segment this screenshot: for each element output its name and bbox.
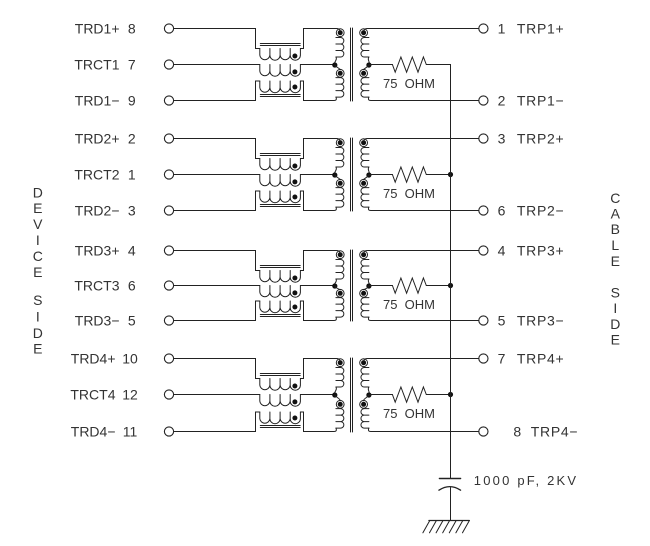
wire T3 secondary bottom to pin 5 TRP3-: [368, 317, 478, 320]
pin circle TRCT2 (left): [164, 170, 173, 179]
svg-text:10: 10: [122, 351, 138, 367]
svg-text:9: 9: [128, 93, 136, 109]
polarity dot choke L1 top winding: [292, 54, 297, 59]
svg-text:E: E: [611, 253, 620, 269]
pin circle TRCT4 (left): [164, 390, 173, 399]
svg-text:B: B: [611, 221, 620, 237]
wire choke L2 bottom out to transformer T2 primary bottom: [300, 191, 336, 211]
svg-text:1: 1: [128, 167, 136, 183]
transformer T2 secondary first loop (around dot): [360, 139, 368, 147]
polarity dot T1 secondary top: [361, 30, 366, 35]
transformer T4 secondary lower first loop (around dot): [360, 400, 368, 408]
T1 primary center tap to lower half: [335, 65, 340, 70]
T4 secondary center tap to lower half: [364, 395, 369, 401]
svg-text:7: 7: [128, 57, 136, 73]
wire T4 secondary bottom to pin 8 TRP4-: [368, 428, 478, 431]
wire T3 secondary top to pin 4 TRP3+: [364, 251, 479, 253]
polarity dot choke L3 top winding: [292, 276, 297, 281]
svg-text:TRP3−: TRP3−: [517, 313, 564, 329]
chassis ground hatching: [423, 521, 470, 533]
polarity dot T3 primary top: [338, 252, 343, 257]
wire choke L3 bottom out to transformer T3 primary bottom: [300, 301, 336, 321]
choke L3 core bars (top): [260, 266, 300, 268]
choke L3 top winding loops: [260, 271, 301, 283]
svg-text:TRP4+: TRP4+: [517, 351, 564, 367]
wire choke L2 top out to transformer T2 primary top: [300, 139, 340, 159]
svg-text:3: 3: [128, 203, 136, 219]
net label CABLE SIDE (vertical, right): [610, 190, 620, 347]
polarity dot T1 primary lower: [338, 71, 343, 76]
pin circle 3 TRP2+ (right): [479, 134, 488, 143]
wire TRCT3 into choke L3 middle winding: [174, 285, 260, 287]
svg-text:D: D: [610, 316, 620, 332]
wire choke L1 bottom out to transformer T1 primary bottom: [300, 81, 336, 101]
center-tap dot T1 secondary: [366, 62, 371, 67]
polarity dot choke L3 bottom winding: [292, 305, 297, 310]
svg-text:4: 4: [128, 243, 136, 259]
svg-text:TRCT3: TRCT3: [74, 278, 119, 294]
svg-text:75 OHM: 75 OHM: [383, 297, 435, 312]
svg-text:TRD4+: TRD4+: [71, 351, 116, 367]
T1 secondary upper half to center tap: [368, 57, 369, 65]
wire TRD3+ into choke L3 top winding: [174, 251, 260, 271]
transformer T1 primary lower first loop (around dot): [336, 69, 344, 77]
transformer T3 secondary first loop (around dot): [360, 251, 368, 259]
T2 primary center tap to lower half: [335, 175, 340, 180]
choke L4 core bars (top): [260, 374, 300, 376]
wire TRD2- into choke L2 bottom winding: [174, 191, 260, 211]
transformer T2 primary lower first loop (around dot): [336, 179, 344, 187]
T3 secondary center tap to lower half: [364, 286, 369, 290]
transformer T1 secondary upper loops: [361, 38, 369, 58]
pin circle TRD3- (left): [164, 316, 173, 325]
wire T4 center tap to resistor R4: [369, 394, 393, 397]
wire choke L4 bottom out to transformer T4 primary bottom: [300, 412, 336, 432]
svg-text:TRCT1: TRCT1: [74, 57, 119, 73]
pin circle TRD2+ (left, row 138.5): [164, 134, 173, 143]
T4 primary upper half to center tap: [334, 387, 336, 395]
svg-text:E: E: [33, 341, 42, 357]
polarity dot choke L1 bottom winding: [292, 85, 297, 90]
transformer T3 secondary lower loops: [361, 298, 369, 318]
svg-text:TRD3+: TRD3+: [75, 243, 120, 259]
wire T1 center tap to resistor R1: [369, 64, 393, 67]
T3 secondary upper half to center tap: [368, 279, 369, 286]
choke L1 core bars (bottom): [260, 95, 300, 97]
wire T1 secondary top to pin 1 TRP1+: [364, 29, 479, 31]
resistor R3 75 OHM zigzag: [392, 278, 426, 293]
svg-text:I: I: [613, 300, 617, 316]
svg-text:8: 8: [513, 424, 521, 440]
transformer T1 core: [351, 28, 353, 101]
svg-text:6: 6: [128, 278, 136, 294]
wire TRD4- into choke L4 bottom winding: [174, 412, 260, 432]
transformer T4 primary first loop (around dot): [336, 359, 344, 367]
polarity dot choke L2 top winding: [292, 164, 297, 169]
wire TRD1+ into choke L1 top winding: [174, 29, 260, 49]
choke L4 top winding loops: [260, 379, 301, 391]
transformer T4 secondary upper loops: [361, 368, 369, 388]
wire TRCT4 into choke L4 middle winding: [174, 394, 260, 396]
transformer T1 secondary lower loops: [361, 78, 369, 98]
transformer T4 primary lower first loop (around dot): [336, 400, 344, 408]
polarity dot T4 secondary lower: [361, 402, 366, 407]
svg-text:11: 11: [123, 424, 138, 440]
svg-text:TRP2−: TRP2−: [517, 203, 564, 219]
pin circle 1 TRP1+ (right): [479, 24, 488, 33]
pin circle TRD1+ (left, row 28.5): [164, 24, 173, 33]
svg-text:TRP1+: TRP1+: [517, 21, 564, 37]
wire T2 secondary bottom to pin 6 TRP2-: [368, 207, 478, 210]
polarity dot T2 primary top: [338, 140, 343, 145]
chassis ground bar: [429, 520, 469, 522]
pin circle 8 TRP4- (right): [479, 427, 488, 436]
resistor R2 75 OHM zigzag: [392, 167, 426, 182]
wire resistor R3 to common bus: [426, 285, 450, 287]
polarity dot choke L4 bottom winding: [292, 416, 297, 421]
transformer T2 secondary upper loops: [361, 148, 369, 168]
svg-text:8: 8: [128, 21, 136, 37]
svg-text:E: E: [611, 332, 620, 348]
svg-text:TRD4−: TRD4−: [71, 424, 116, 440]
wire T2 secondary top to pin 3 TRP2+: [364, 139, 479, 141]
junction dot bus / R2: [448, 172, 453, 177]
T3 primary center tap to lower half: [335, 286, 340, 290]
transformer T3 primary upper loops: [336, 260, 344, 280]
wire TRD2+ into choke L2 top winding: [174, 139, 260, 159]
transformer T4 secondary first loop (around dot): [360, 359, 368, 367]
svg-text:TRP2+: TRP2+: [517, 131, 564, 147]
transformer T1 primary upper loops: [336, 38, 344, 58]
pin circle 2 TRP1- (right): [479, 96, 488, 105]
center-tap dot T2 secondary: [366, 172, 371, 177]
svg-text:C: C: [33, 248, 43, 264]
wire T1 secondary bottom to pin 2 TRP1-: [368, 97, 478, 100]
polarity dot T4 secondary top: [361, 360, 366, 365]
svg-text:V: V: [33, 216, 43, 232]
transformer T3 primary lower loops: [336, 298, 344, 318]
choke L1 core bars (top): [260, 44, 300, 46]
transformer T2 secondary lower first loop (around dot): [360, 179, 368, 187]
choke L2 core bars (bottom): [260, 205, 300, 207]
svg-text:C: C: [610, 190, 620, 206]
transformer T2 secondary lower loops: [361, 188, 369, 208]
choke L3 bottom winding loops: [260, 301, 301, 313]
svg-text:TRD2+: TRD2+: [75, 131, 120, 147]
svg-text:TRP1−: TRP1−: [517, 93, 564, 109]
T2 secondary upper half to center tap: [368, 167, 369, 175]
svg-text:E: E: [33, 264, 42, 280]
transformer T2 core: [351, 138, 353, 211]
pin circle TRD4+ (left, row 358.5): [164, 354, 173, 363]
polarity dot choke L2 middle winding: [292, 179, 297, 184]
transformer T2 primary first loop (around dot): [336, 139, 344, 147]
svg-text:S: S: [33, 292, 42, 308]
choke L2 middle winding loops: [260, 175, 301, 187]
T4 primary center tap to lower half: [335, 395, 340, 401]
polarity dot T2 primary lower: [338, 181, 343, 186]
choke L2 bottom winding loops: [260, 191, 301, 203]
polarity dot choke L1 middle winding: [292, 69, 297, 74]
polarity dot T4 primary top: [338, 360, 343, 365]
transformer T3 primary lower first loop (around dot): [336, 289, 344, 297]
polarity dot choke L4 middle winding: [292, 399, 297, 404]
wire resistor R2 to common bus: [426, 174, 450, 176]
transformer T1 secondary first loop (around dot): [360, 29, 368, 37]
pin circle TRCT1 (left): [164, 60, 173, 69]
polarity dot choke L4 top winding: [292, 384, 297, 389]
svg-text:3: 3: [498, 131, 506, 147]
svg-text:TRD3−: TRD3−: [75, 313, 120, 329]
pin circle 4 TRP3+ (right): [479, 246, 488, 255]
polarity dot T1 secondary lower: [361, 71, 366, 76]
transformer T3 secondary lower first loop (around dot): [360, 289, 368, 297]
svg-text:75 OHM: 75 OHM: [383, 186, 435, 201]
svg-text:5: 5: [128, 313, 136, 329]
transformer T4 core: [351, 358, 353, 432]
wire choke L1 top out to transformer T1 primary top: [300, 29, 340, 49]
svg-text:D: D: [33, 325, 43, 341]
choke L1 top winding loops: [260, 49, 301, 61]
wire T2 center tap to resistor R2: [369, 174, 393, 177]
center-tap dot T1 primary: [332, 62, 337, 67]
choke L1 middle winding loops: [260, 65, 301, 77]
svg-text:7: 7: [498, 351, 506, 367]
transformer T3 core: [351, 250, 353, 321]
svg-text:D: D: [33, 185, 43, 201]
center-tap dot T4 secondary: [366, 392, 371, 397]
wire choke L2 middle out to transformer T2 center tap: [300, 174, 334, 176]
choke L4 middle winding loops: [260, 395, 301, 407]
svg-text:1: 1: [498, 21, 506, 37]
pin circle TRD4- (left): [164, 427, 173, 436]
wire T3 center tap to resistor R3: [369, 285, 393, 288]
pin circle 6 TRP2- (right): [479, 206, 488, 215]
junction dot bus / R4: [448, 392, 453, 397]
choke L3 middle winding loops: [260, 286, 301, 298]
svg-text:2: 2: [498, 93, 506, 109]
svg-text:1000 pF, 2KV: 1000 pF, 2KV: [474, 473, 578, 488]
wire TRCT1 into choke L1 middle winding: [174, 64, 260, 66]
transformer T4 primary upper loops: [336, 368, 344, 388]
center-tap dot T3 primary: [332, 283, 337, 288]
wire choke L1 middle out to transformer T1 center tap: [300, 64, 334, 66]
transformer T3 primary first loop (around dot): [336, 251, 344, 259]
resistor R4 75 OHM zigzag: [392, 387, 426, 402]
choke L2 core bars (top): [260, 154, 300, 156]
center-tap dot T4 primary: [332, 392, 337, 397]
center-tap dot T3 secondary: [366, 283, 371, 288]
wire resistor R1 to common bus: [426, 64, 450, 66]
polarity dot T2 secondary lower: [361, 181, 366, 186]
svg-text:TRCT2: TRCT2: [74, 167, 119, 183]
T1 primary upper half to center tap: [334, 57, 336, 65]
capacitor C1 bottom plate (curved): [439, 487, 461, 491]
svg-text:TRD1−: TRD1−: [75, 93, 120, 109]
resistor R1 75 OHM zigzag: [392, 57, 426, 72]
transformer T2 primary upper loops: [336, 148, 344, 168]
polarity dot T2 secondary top: [361, 140, 366, 145]
svg-text:TRP4−: TRP4−: [531, 424, 578, 440]
transformer T1 primary first loop (around dot): [336, 29, 344, 37]
svg-text:75 OHM: 75 OHM: [383, 76, 435, 91]
T2 primary upper half to center tap: [334, 167, 336, 175]
transformer T4 secondary lower loops: [361, 409, 369, 429]
transformer T1 secondary lower first loop (around dot): [360, 69, 368, 77]
choke L2 top winding loops: [260, 159, 301, 171]
polarity dot T3 primary lower: [338, 291, 343, 296]
wire TRD4+ into choke L4 top winding: [174, 359, 260, 379]
pin circle 7 TRP4+ (right): [479, 354, 488, 363]
wire choke L3 middle out to transformer T3 center tap: [300, 285, 334, 287]
transformer T3 secondary upper loops: [361, 260, 369, 280]
center-tap dot T2 primary: [332, 172, 337, 177]
svg-text:5: 5: [498, 313, 506, 329]
wire choke L4 middle out to transformer T4 center tap: [300, 394, 334, 396]
transformer T1 primary lower loops: [336, 78, 344, 98]
wire capacitor C1 to chassis ground: [450, 488, 452, 521]
T1 secondary center tap to lower half: [364, 65, 369, 70]
choke L4 bottom winding loops: [260, 412, 301, 424]
T4 secondary upper half to center tap: [368, 387, 369, 395]
choke L4 core bars (bottom): [260, 426, 300, 428]
wire choke L3 top out to transformer T3 primary top: [300, 251, 340, 271]
polarity dot T4 primary lower: [338, 402, 343, 407]
choke L1 bottom winding loops: [260, 81, 301, 93]
svg-text:75 OHM: 75 OHM: [383, 406, 435, 421]
wire choke L4 top out to transformer T4 primary top: [300, 359, 340, 379]
svg-text:I: I: [36, 232, 40, 248]
svg-text:E: E: [33, 200, 42, 216]
wire TRCT2 into choke L2 middle winding: [174, 174, 260, 176]
svg-text:TRCT4: TRCT4: [70, 387, 115, 403]
svg-text:4: 4: [498, 243, 506, 259]
wire TRD3- into choke L3 bottom winding: [174, 301, 260, 321]
pin circle TRD3+ (left, row 250.5): [164, 246, 173, 255]
polarity dot choke L2 bottom winding: [292, 195, 297, 200]
wire T4 secondary top to pin 7 TRP4+: [364, 359, 479, 361]
svg-text:TRP3+: TRP3+: [517, 243, 564, 259]
polarity dot choke L3 middle winding: [292, 290, 297, 295]
svg-text:S: S: [611, 285, 620, 301]
wire resistor R4 to common bus: [426, 394, 450, 396]
capacitor C1 top plate: [439, 478, 460, 480]
T3 primary upper half to center tap: [334, 279, 336, 286]
svg-text:A: A: [611, 206, 621, 222]
svg-text:TRD1+: TRD1+: [75, 21, 120, 37]
polarity dot T3 secondary top: [361, 252, 366, 257]
svg-text:L: L: [611, 237, 619, 253]
svg-text:12: 12: [122, 387, 138, 403]
wire common termination bus (vertical): [450, 65, 452, 479]
T2 secondary center tap to lower half: [364, 175, 369, 180]
junction dot bus / R3: [448, 283, 453, 288]
pin circle TRD2- (left): [164, 206, 173, 215]
polarity dot T3 secondary lower: [361, 291, 366, 296]
svg-text:2: 2: [128, 131, 136, 147]
svg-text:TRD2−: TRD2−: [75, 203, 120, 219]
polarity dot T1 primary top: [338, 30, 343, 35]
pin circle TRCT3 (left): [164, 281, 173, 290]
net label DEVICE SIDE (vertical, left): [33, 185, 43, 357]
pin circle 5 TRP3- (right): [479, 316, 488, 325]
wire TRD1- into choke L1 bottom winding: [174, 81, 260, 101]
transformer T2 primary lower loops: [336, 188, 344, 208]
pin circle TRD1- (left): [164, 96, 173, 105]
svg-text:I: I: [36, 309, 40, 325]
svg-text:6: 6: [498, 203, 506, 219]
transformer T4 primary lower loops: [336, 409, 344, 429]
choke L3 core bars (bottom): [260, 315, 300, 317]
